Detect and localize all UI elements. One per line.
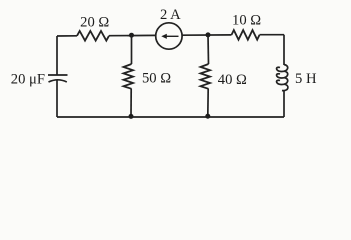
current source arrow (166, 35, 179, 37)
svg-text:40 Ω: 40 Ω (218, 72, 247, 88)
node: junction dot bottom-right (205, 114, 210, 119)
svg-text:10 Ω: 10 Ω (232, 13, 261, 29)
wire: left vertical bottom (capacitor to bottom) (56, 81, 58, 118)
node: junction dot top-left (50Ω branch) (129, 33, 134, 38)
wire: bottom horizontal (57, 116, 284, 118)
svg-text:50 Ω: 50 Ω (142, 71, 171, 87)
wire: 50Ω branch lower stub (130, 89, 132, 117)
resistor 20Ω (top left) (77, 31, 109, 41)
svg-text:5 H: 5 H (295, 71, 317, 87)
wire: top right to corner (260, 34, 285, 36)
svg-text:20 μF: 20 μF (11, 71, 45, 87)
wire: right vertical bottom (inductor to bottom) (283, 91, 285, 118)
wire: top, resistor to current source (109, 34, 156, 36)
wire: 40Ω branch upper stub (207, 35, 210, 64)
resistor 10Ω (top right) (232, 30, 260, 40)
wire: right vertical top (to inductor) (283, 35, 285, 65)
node: junction dot top-right (40Ω branch) (206, 32, 211, 37)
svg-text:2 A: 2 A (160, 7, 181, 23)
wire: top, current source to 10Ω (182, 34, 231, 36)
capacitor 20 µF (48, 74, 68, 76)
wire: top left horizontal (57, 35, 77, 37)
resistor 40Ω (vertical) (201, 64, 211, 89)
node: junction dot bottom-left (129, 114, 134, 119)
wire: 50Ω branch upper stub (131, 35, 133, 64)
wire: left vertical top (to capacitor) (56, 36, 58, 75)
inductor 5 H (277, 65, 288, 91)
current source 2 A (156, 23, 182, 49)
resistor 50Ω (vertical) (124, 64, 134, 89)
wire: 40Ω branch lower stub (207, 89, 209, 116)
svg-text:20 Ω: 20 Ω (80, 15, 109, 31)
